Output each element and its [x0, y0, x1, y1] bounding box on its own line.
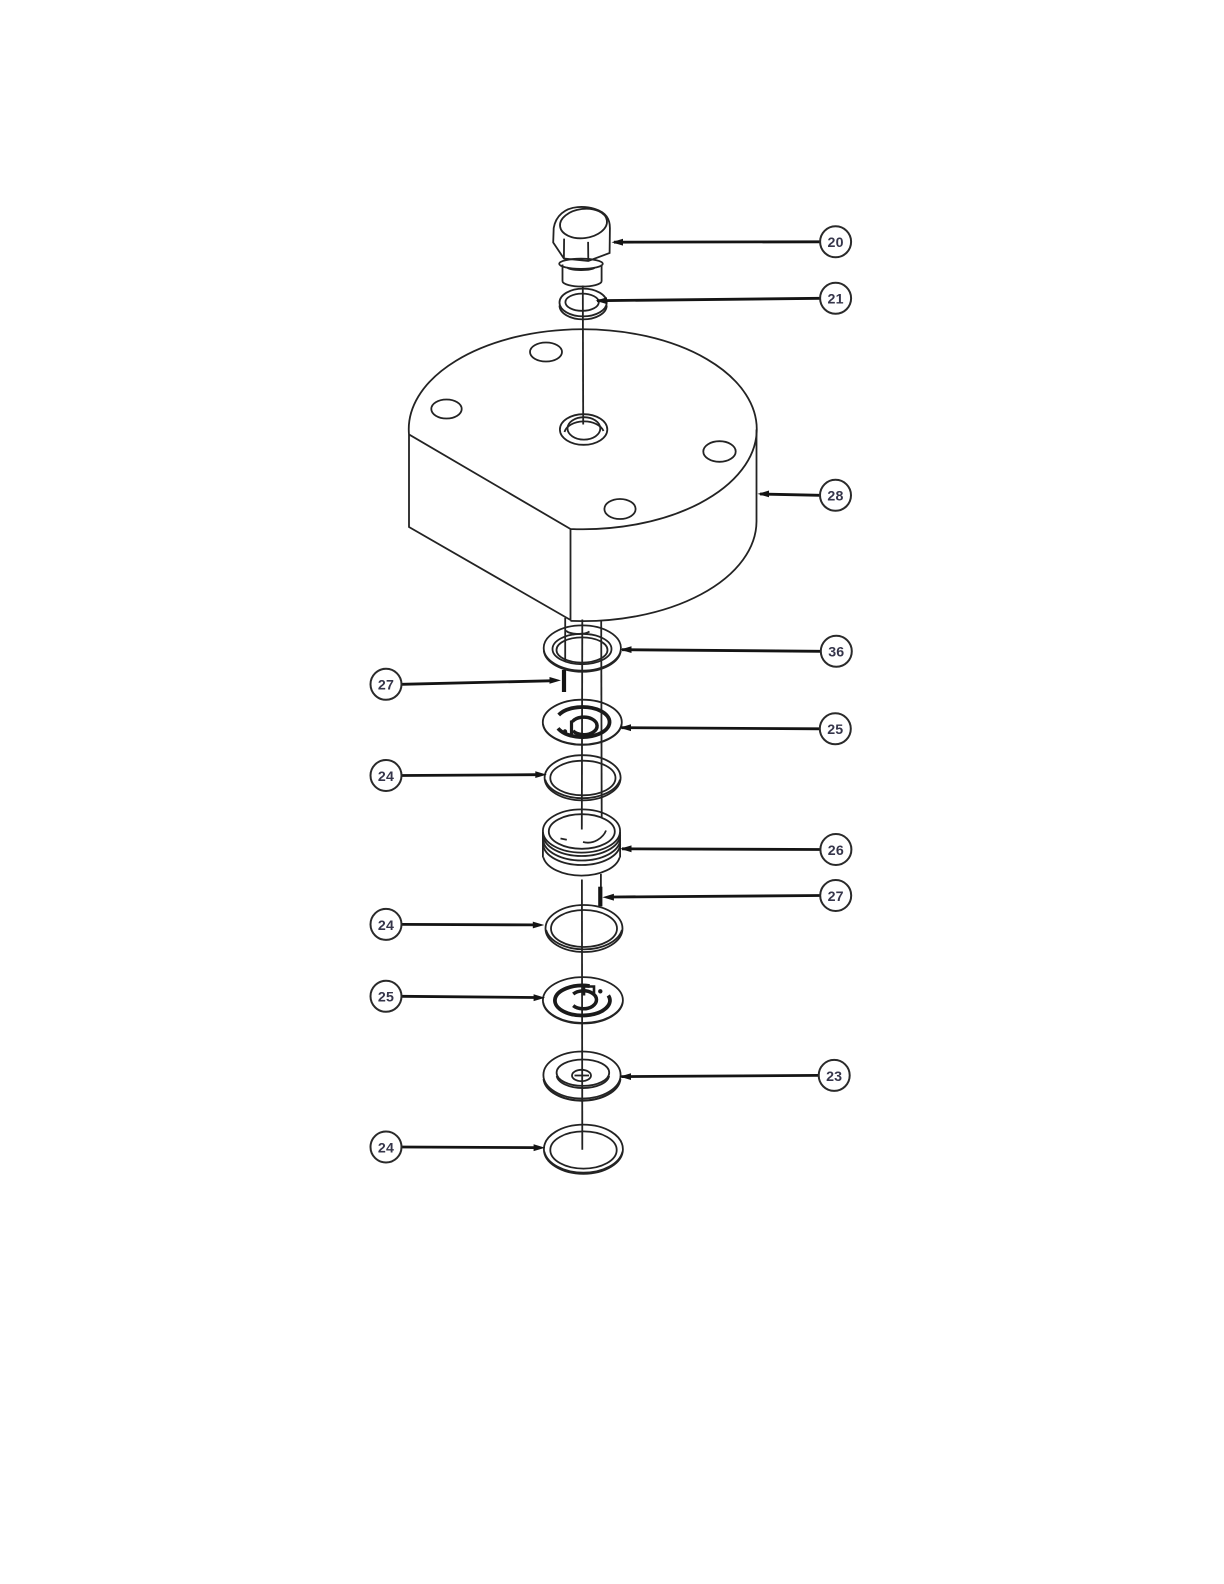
arrow to item 28 — [758, 491, 770, 498]
spiral retaining ring item 25 upper — [543, 700, 622, 745]
leader line 24 upper — [402, 773, 536, 777]
arrow to item 24 middle — [533, 922, 545, 929]
axis line body to cap — [581, 620, 584, 830]
leader line 24 middle — [402, 923, 533, 926]
svg-text:24: 24 — [378, 1140, 394, 1156]
callout balloon 25 upper — [820, 713, 851, 744]
leader line 21 — [597, 298, 820, 300]
svg-text:24: 24 — [378, 918, 394, 934]
spiral retaining ring item 25 lower — [543, 977, 623, 1023]
top hole left — [431, 400, 461, 419]
pin item 27 left — [562, 670, 566, 692]
arrow to pin 27 right — [602, 894, 614, 901]
svg-text:21: 21 — [828, 292, 844, 308]
callout balloon 21 — [820, 283, 851, 314]
flanged ring item 36 — [544, 625, 621, 671]
callout balloon 36 — [821, 636, 852, 667]
body block item 28 — [409, 329, 757, 817]
callout balloon 28 — [820, 480, 851, 511]
washer item 23 — [543, 1052, 620, 1101]
top hole right — [703, 441, 735, 462]
callout balloon 26 — [820, 834, 851, 865]
svg-text:25: 25 — [378, 990, 394, 1006]
hub right edge line down to cap — [600, 621, 603, 818]
arrow to item 24 bottom — [534, 1144, 546, 1151]
callout balloon 24 middle — [371, 909, 402, 940]
washer item 21 — [560, 289, 607, 320]
leader line 28 — [760, 494, 820, 495]
arrow to item 23 — [620, 1073, 632, 1080]
o-ring item 24 upper — [545, 755, 621, 800]
arrow to item 20 — [612, 239, 624, 246]
leader line 36 — [622, 650, 821, 652]
cap item 26 — [543, 809, 620, 875]
arrow to pin 27 left — [550, 677, 562, 684]
center threaded hole — [560, 414, 607, 445]
arrow to item 25 upper — [620, 724, 632, 731]
leader line 27 right — [614, 896, 821, 898]
svg-text:27: 27 — [828, 889, 844, 905]
top hole upper — [530, 343, 562, 362]
leader line 23 — [622, 1075, 819, 1076]
top hole lower — [604, 499, 635, 519]
leader line 27 left — [402, 681, 550, 685]
svg-text:26: 26 — [828, 843, 844, 859]
axis line bolt to body hole — [582, 286, 584, 425]
hub left edge — [564, 618, 566, 662]
svg-text:23: 23 — [826, 1069, 842, 1085]
callout balloon 24 upper — [371, 760, 402, 791]
svg-text:24: 24 — [378, 769, 394, 785]
callout balloon 20 — [820, 226, 851, 257]
arrow to item 25 lower — [534, 994, 546, 1001]
arrow to item 24 upper — [535, 771, 547, 778]
o-ring item 24 bottom — [544, 1125, 623, 1174]
pin item 27 right — [598, 887, 602, 907]
arrow to item 36 — [620, 646, 632, 653]
callout balloon 27 right — [820, 880, 851, 911]
svg-text:28: 28 — [827, 489, 843, 505]
arrow to item 21 — [596, 297, 608, 304]
line cap to pin 27 right — [600, 874, 602, 887]
svg-text:36: 36 — [828, 645, 844, 661]
callout balloon 24 bottom — [371, 1132, 402, 1163]
axis line cap to bottom o-ring — [581, 880, 583, 1150]
hex plug item 20 — [553, 206, 610, 286]
leader line 25 upper — [622, 728, 820, 729]
o-ring item 24 middle — [546, 905, 623, 952]
callout balloon 23 — [819, 1060, 850, 1091]
callout balloon 25 lower — [371, 981, 402, 1012]
leader line 26 — [622, 847, 820, 851]
leader line 25 lower — [402, 996, 534, 997]
callout balloon 27 left — [371, 669, 402, 700]
svg-text:27: 27 — [378, 678, 394, 694]
leader line 20 — [614, 240, 820, 243]
leader line 24 bottom — [402, 1146, 534, 1149]
svg-text:20: 20 — [828, 235, 844, 251]
svg-text:25: 25 — [827, 722, 843, 738]
arrow to item 26 — [620, 845, 632, 852]
